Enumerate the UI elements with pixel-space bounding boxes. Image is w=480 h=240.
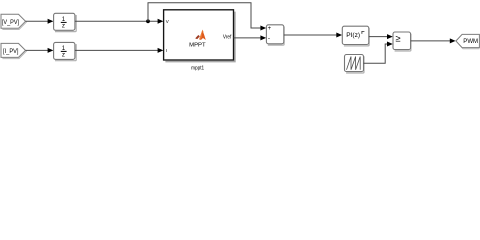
wire unit delay 1 to MPPT V input [75, 19, 163, 24]
from tag I_PV [1, 43, 27, 58]
from tag V_PV [1, 14, 27, 29]
svg-text:I: I [166, 48, 167, 53]
goto tag PWM [456, 34, 480, 48]
junction node on V wire [146, 19, 150, 23]
wire V_PV to unit delay 1 [26, 19, 54, 24]
MPPT subsystem block U1 [164, 10, 235, 62]
wire unit delay 2 to MPPT I input [75, 48, 163, 53]
svg-text:PWM: PWM [463, 38, 478, 45]
PI(z) controller block [342, 26, 369, 46]
unit delay block 2 (1/z) [54, 42, 77, 60]
svg-text:z: z [62, 52, 65, 59]
svg-text:PI(z): PI(z) [346, 32, 360, 39]
wire sawtooth to relational operator bottom input [364, 42, 393, 64]
svg-text:≥: ≥ [395, 34, 400, 44]
svg-text:Vref: Vref [223, 34, 232, 40]
svg-text:[V_PV]: [V_PV] [2, 19, 19, 26]
sawtooth repeating sequence block [345, 55, 365, 74]
wire relational operator to PWM goto tag [411, 38, 456, 43]
svg-text:z: z [62, 23, 65, 30]
relational operator block >= [393, 32, 411, 51]
svg-text:[I_PV]: [I_PV] [3, 48, 19, 55]
svg-text:-: - [268, 35, 270, 42]
svg-text:mppt1: mppt1 [191, 66, 204, 72]
sum block (+/-) [266, 25, 284, 45]
feedback wire V to sum + input [148, 3, 266, 31]
wire I_PV to unit delay 2 [26, 48, 54, 53]
unit delay block 1 (1/z) [54, 13, 77, 31]
wire sum to PI(z) [284, 33, 342, 38]
wire MPPT Vref to sum - input [234, 35, 267, 40]
svg-text:V: V [166, 19, 169, 24]
svg-text:MPPT: MPPT [189, 43, 206, 49]
MATLAB logo inside MPPT [195, 30, 206, 40]
svg-text:+: + [268, 26, 272, 32]
wire PI(z) to relational operator top input [369, 34, 393, 39]
